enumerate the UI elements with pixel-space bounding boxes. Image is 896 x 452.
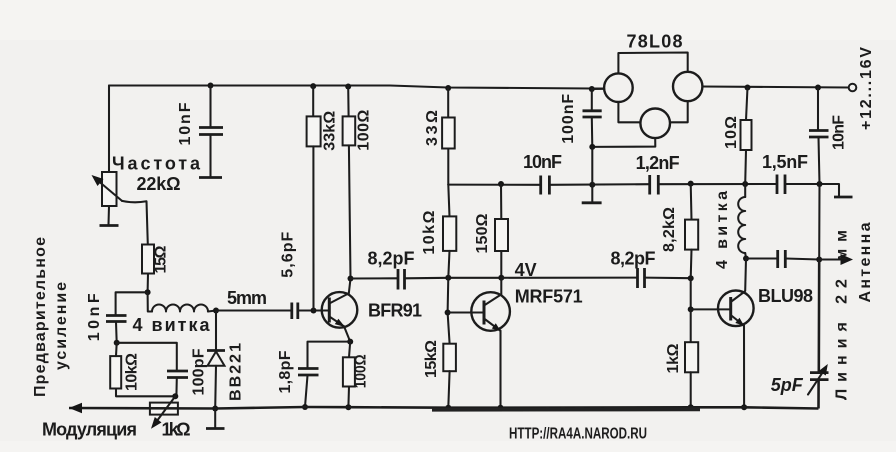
svg-text:BLU98: BLU98 <box>758 286 813 306</box>
svg-text:1kΩ: 1kΩ <box>665 343 682 373</box>
trimmer capacitor 5pF <box>808 364 829 395</box>
node BLU98 bias <box>688 275 694 281</box>
svg-text:MRF571: MRF571 <box>515 287 583 307</box>
svg-text:HTTP://RA4A.NAROD.RU: HTTP://RA4A.NAROD.RU <box>509 426 647 443</box>
ground bar right row end <box>834 196 853 199</box>
resistor 33kΩ <box>307 86 321 310</box>
resistor 15Ω <box>142 245 154 293</box>
wire coupling MRF571 to BLU98 <box>501 277 636 279</box>
capacitor 10nF right <box>809 88 829 185</box>
ground bar mid row <box>582 201 602 204</box>
node MRF571 emitter on rail <box>498 405 504 411</box>
inductor 4 витка right <box>738 184 746 259</box>
node BLU98 base <box>688 306 694 312</box>
resistor 150Ω <box>495 184 508 278</box>
svg-text:10nF: 10nF <box>86 293 103 341</box>
resistor 8,2kΩ <box>685 184 698 310</box>
node row at 150Ω <box>498 181 504 187</box>
wire output cap to antenna node <box>786 259 819 260</box>
resistor 33Ω <box>442 88 455 185</box>
svg-text:10kΩ: 10kΩ <box>421 210 438 254</box>
node BLU98 emitter on rail <box>741 404 747 410</box>
node 100Ω on rail <box>345 404 351 410</box>
svg-text:8,2pF: 8,2pF <box>368 249 415 269</box>
node BFR91 emitter <box>347 339 353 345</box>
svg-text:100Ω: 100Ω <box>353 354 370 388</box>
resistor 10kΩ left <box>110 343 175 397</box>
node top rail at 33kΩ <box>310 83 316 89</box>
node 1,8pF on rail <box>302 404 308 410</box>
node frequency net <box>145 289 151 295</box>
svg-text:1,2nF: 1,2nF <box>636 153 680 173</box>
wire to 10nF branch <box>116 292 148 314</box>
svg-text:100Ω: 100Ω <box>356 110 373 151</box>
node wiper junction <box>172 393 178 399</box>
node BFR91 base <box>311 308 317 314</box>
svg-text:78L08: 78L08 <box>627 31 683 51</box>
svg-text:10Ω: 10Ω <box>723 116 740 149</box>
svg-text:100nF: 100nF <box>560 94 577 144</box>
node BB221 on rail <box>212 406 218 412</box>
svg-text:15Ω: 15Ω <box>153 245 170 273</box>
node row at line <box>817 181 823 187</box>
svg-text:Линия 22 мм: Линия 22 мм <box>834 230 851 400</box>
wire middle row <box>448 184 839 197</box>
resistor 1kΩ BLU98 <box>685 309 698 407</box>
svg-text:BFR91: BFR91 <box>368 301 422 321</box>
potentiometer Частота 22kΩ <box>92 86 148 245</box>
wire 78L08 ground stub <box>591 147 593 202</box>
resistor 15kΩ <box>443 344 456 408</box>
capacitor 1,8pF <box>298 369 319 407</box>
node top rail at 100Ω <box>345 84 351 90</box>
svg-text:100pF: 100pF <box>191 348 208 395</box>
capacitor output coupling <box>778 250 786 268</box>
svg-text:8,2pF: 8,2pF <box>611 249 656 269</box>
wire top rail right of 78L08 <box>703 87 850 88</box>
svg-text:усиление: усиление <box>53 282 70 370</box>
svg-text:1kΩ: 1kΩ <box>162 420 191 440</box>
wire bottom rail <box>69 407 819 409</box>
svg-text:BB221: BB221 <box>228 343 245 401</box>
svg-text:5mm: 5mm <box>227 288 267 308</box>
node BFR91 collector <box>348 276 354 282</box>
svg-text:5pF: 5pF <box>771 375 804 395</box>
svg-text:22kΩ: 22kΩ <box>137 174 181 194</box>
wire emitter to 1,8pF <box>308 342 351 368</box>
node BLU98 collector <box>743 256 749 262</box>
capacitor 100nF <box>583 89 602 147</box>
svg-text:Предварительное: Предварительное <box>32 237 49 397</box>
wire line 22mm upper <box>818 184 820 260</box>
transistor Q1 BFR91 <box>322 279 358 342</box>
node row at ground <box>589 182 595 188</box>
svg-text:8,2kΩ: 8,2kΩ <box>661 207 678 252</box>
resistor 10Ω <box>741 88 752 185</box>
capacitor 100pF <box>167 371 188 396</box>
wire 8,2pF to divider node <box>405 277 501 280</box>
inductor 4 витка left <box>148 292 216 311</box>
svg-text:4 витка: 4 витка <box>133 315 211 335</box>
capacitor 10nF left <box>106 316 127 343</box>
node top rail at 33Ω <box>445 85 451 91</box>
node 78L08 output of cap <box>589 144 595 150</box>
node top rail at 10nF <box>208 83 214 89</box>
node MRF571 collector <box>498 275 504 281</box>
ground under BB221 <box>206 409 225 429</box>
resistor 100Ω collector <box>343 87 356 279</box>
capacitor 10nF top-left <box>199 86 223 177</box>
wire BLU98 collector to output cap <box>746 257 777 259</box>
antenna arrow <box>819 254 853 265</box>
ground bar under 10nF top-left <box>199 176 222 179</box>
svg-text:33kΩ: 33kΩ <box>322 111 339 151</box>
node top rail at 78L08 input <box>589 86 595 92</box>
svg-text:1,8pF: 1,8pF <box>277 350 294 393</box>
resistor 10kΩ divider <box>443 185 456 344</box>
terminal +12...16V <box>849 84 857 92</box>
node MRF571 base <box>445 310 451 316</box>
capacitor 10nF row <box>541 176 550 195</box>
capacitor 1,5nF row <box>777 175 785 195</box>
svg-text:Модуляция: Модуляция <box>42 420 137 440</box>
transistor Q2 MRF571 <box>448 278 510 408</box>
svg-text:10nF: 10nF <box>523 152 562 172</box>
node top rail at 10nF right <box>815 85 821 91</box>
node row at 8,2kΩ <box>688 181 694 187</box>
svg-text:5,6pF: 5,6pF <box>280 231 297 277</box>
wire coupling line BFR91 to MRF571 <box>351 277 398 279</box>
resistor 100Ω emitter <box>343 342 355 407</box>
svg-text:15kΩ: 15kΩ <box>423 340 440 378</box>
potentiometer Модуляция 1kΩ <box>150 396 178 429</box>
svg-text:10nF: 10nF <box>177 102 194 145</box>
capacitor 8,2pF second <box>638 268 645 288</box>
svg-text:150Ω: 150Ω <box>474 213 491 253</box>
transistor Q3 BLU98 <box>691 259 754 408</box>
wire bottom rail thick segment <box>432 408 700 412</box>
wire coil to 5,6pF <box>216 309 291 311</box>
capacitor 8,2pF first <box>398 269 405 290</box>
node 15kΩ on rail <box>445 405 451 411</box>
diode BB221 <box>207 311 225 409</box>
node row at coil <box>742 181 748 187</box>
regulator U1 78L08 <box>592 53 703 147</box>
wire 8,2pF second right <box>645 277 691 280</box>
node varactor top <box>213 308 219 314</box>
node antenna junction <box>816 257 822 263</box>
capacitor 5,6pF <box>292 303 322 320</box>
wire bias net horizontal <box>117 343 177 370</box>
modulation input arrow <box>69 403 82 413</box>
node varactor bias net <box>114 340 120 346</box>
node top rail at 10Ω <box>745 85 751 91</box>
node 1kΩ on rail <box>688 404 694 410</box>
svg-text:10kΩ: 10kΩ <box>124 353 141 391</box>
wire line 22mm lower (bold) <box>817 260 820 409</box>
capacitor 1,2nF row <box>650 175 659 195</box>
ground bar under potentiometer <box>100 224 119 227</box>
svg-text:1,5nF: 1,5nF <box>762 152 808 172</box>
wire top rail <box>109 86 604 89</box>
svg-text:10nF: 10nF <box>831 115 848 150</box>
node divider 8,2pF <box>445 275 451 281</box>
svg-text:33Ω: 33Ω <box>424 110 441 146</box>
